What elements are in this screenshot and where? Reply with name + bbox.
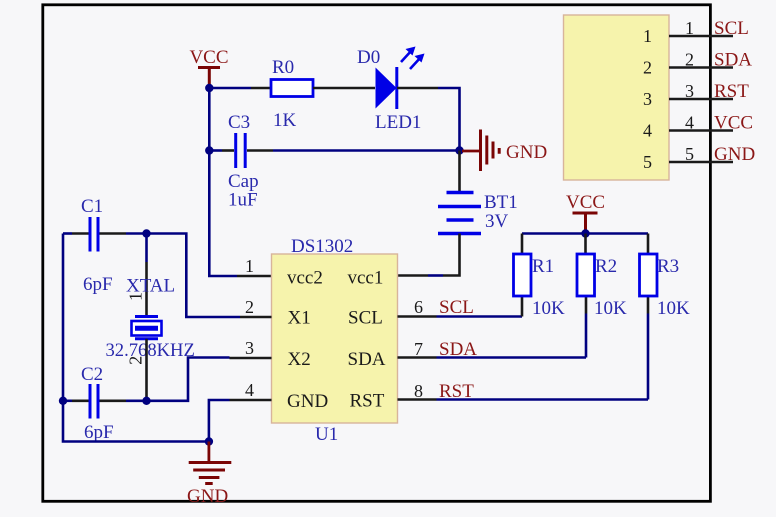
svg-text:GND: GND [714,144,755,165]
VCC rail for R1 R2 R3 [522,232,648,235]
svg-text:10K: 10K [532,298,565,319]
svg-text:C1: C1 [81,196,103,217]
power symbol VCC (top left) [189,47,228,88]
svg-text:BT1: BT1 [484,192,518,213]
connector pin 5 [669,161,733,164]
svg-text:10K: 10K [657,298,690,319]
svg-text:VCC: VCC [714,113,753,134]
svg-text:RST: RST [350,391,385,412]
pin 4 stub (GND) [230,399,272,402]
svg-text:U1: U1 [315,424,338,445]
svg-text:R1: R1 [532,256,554,277]
svg-text:GND: GND [287,391,328,412]
svg-text:5: 5 [643,152,652,172]
wire LED to battery corner [438,88,460,151]
svg-text:2: 2 [125,356,145,365]
svg-text:RST: RST [714,81,749,102]
connector J1 header [564,15,670,180]
pin 2 stub (X1) [240,316,272,319]
svg-text:LED1: LED1 [375,112,421,133]
svg-text:SDA: SDA [348,349,386,370]
svg-text:SDA: SDA [714,50,752,71]
connector pin 1 [669,35,733,38]
svg-text:1: 1 [245,256,254,276]
svg-text:7: 7 [414,339,423,359]
svg-text:RST: RST [439,381,474,402]
svg-text:6pF: 6pF [84,422,114,443]
svg-text:SCL: SCL [714,18,749,39]
svg-text:32.768KHZ: 32.768KHZ [106,340,195,361]
long wire VCC rail down left of chip to pin 1 [209,88,237,276]
wire C1 to XTAL node and X1 [126,234,240,318]
node battery/GND junction [455,146,463,154]
node bottom GND junction [205,437,213,445]
svg-text:3: 3 [643,89,652,109]
power symbol VCC (right) [566,192,605,234]
crystal XTAL 32.768KHZ [106,234,195,401]
node C2 left junction [59,397,67,405]
node C3 left junction [205,146,213,154]
pin 3 stub (X2) [230,357,272,360]
svg-text:1: 1 [643,26,652,46]
svg-text:6pF: 6pF [83,274,113,295]
svg-text:X2: X2 [288,349,311,370]
pin 8 stub + wire to R3 [398,398,437,401]
svg-text:D0: D0 [357,47,380,68]
resistor R2 [577,234,627,320]
svg-text:GND: GND [506,142,547,163]
svg-text:4: 4 [685,113,694,133]
svg-text:C2: C2 [81,364,103,385]
capacitor C3 [209,112,273,211]
connector pin 2 [669,66,733,69]
resistor R1 [514,234,566,320]
svg-text:R3: R3 [657,256,679,277]
svg-text:6: 6 [414,297,423,317]
svg-text:4: 4 [245,380,254,400]
capacitor C1 [63,196,126,295]
svg-text:C3: C3 [228,112,250,133]
svg-text:1K: 1K [273,110,297,131]
left rail C1-C2-GND [63,234,209,442]
node VCC rail junction [581,229,589,237]
resistor R3 [640,234,691,320]
svg-text:VCC: VCC [566,192,605,213]
svg-text:SCL: SCL [348,308,383,329]
svg-text:DS1302: DS1302 [291,236,353,257]
capacitor C2 [63,364,126,443]
svg-text:2: 2 [685,50,694,70]
wire GND node up to pin 4 [209,400,230,442]
node C1/XTAL junction [142,229,150,237]
svg-text:R2: R2 [595,256,617,277]
svg-text:SDA: SDA [439,339,477,360]
svg-text:2: 2 [643,58,652,78]
resistor R0 [251,57,375,131]
wire VCC node to R0 [209,87,251,90]
svg-text:vcc1: vcc1 [348,268,384,289]
IC U1 DS1302 [272,236,398,445]
svg-text:GND: GND [187,486,228,507]
svg-text:8: 8 [414,381,423,401]
pin 7 stub + wire to R2 [398,356,437,359]
svg-text:3: 3 [245,338,254,358]
svg-text:R0: R0 [272,57,294,78]
svg-text:3V: 3V [485,211,509,232]
power symbol GND (bottom) [187,442,231,508]
battery BT1 [438,151,518,276]
svg-text:1: 1 [685,18,694,38]
wire C3 to battery/GND node [273,149,460,152]
svg-text:SCL: SCL [439,297,474,318]
wire battery to vcc1 [428,274,443,277]
svg-text:vcc2: vcc2 [287,268,323,289]
svg-text:5: 5 [685,144,694,164]
svg-text:10K: 10K [594,298,627,319]
LED D0 / LED1 [357,47,438,134]
svg-text:X1: X1 [288,308,311,329]
connector pin 4 [669,129,733,132]
svg-text:VCC: VCC [189,47,228,68]
node VCC/R0 junction [205,84,213,92]
svg-text:2: 2 [245,297,254,317]
svg-text:4: 4 [643,121,652,141]
wire C2 node to X2 [126,358,230,401]
svg-text:3: 3 [685,81,694,101]
svg-text:1: 1 [126,292,146,301]
svg-text:1uF: 1uF [228,190,258,211]
connector pin 3 [669,98,733,101]
node C2/XTAL junction [142,397,150,405]
pin 6 stub + wire to R1 [398,315,437,318]
power symbol GND (right of battery) [462,130,547,172]
